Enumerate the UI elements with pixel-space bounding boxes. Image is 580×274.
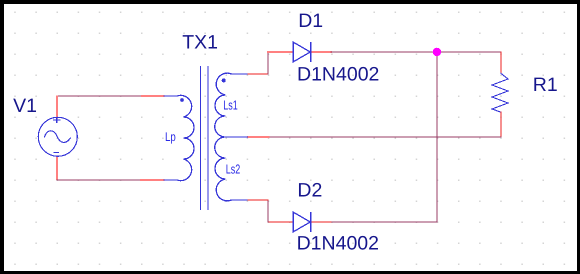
V1 sine bbox=[44, 131, 70, 143]
pin Ls2 bottom (red) bbox=[248, 199, 269, 201]
phase dot Lp bbox=[180, 98, 184, 102]
core line right bbox=[207, 66, 209, 210]
pin D1 anode (salmon) bbox=[268, 51, 293, 53]
svg-text:V1: V1 bbox=[13, 95, 37, 117]
wire top rail: D1 to R1 corner through junction bbox=[331, 51, 501, 53]
winding Ls2 bbox=[215, 137, 248, 201]
pin V1 - (salmon, vertical) bbox=[56, 157, 58, 180]
wire D2 output to junction riser bbox=[331, 221, 437, 223]
pin R1 top (red) bbox=[500, 52, 502, 73]
svg-text:Ls1: Ls1 bbox=[223, 97, 238, 112]
diode D2 bbox=[293, 212, 310, 232]
pin R1 bottom (red) bbox=[500, 112, 502, 137]
wire primary bottom: V1 bottom corner to TX1 Lp bottom pin bbox=[57, 179, 141, 181]
svg-text:D2: D2 bbox=[297, 180, 322, 202]
pin Lp top (salmon) bbox=[142, 95, 164, 97]
wire bottom rail: R1 bottom to center tap bbox=[269, 136, 502, 138]
resistor R1 bbox=[492, 73, 508, 112]
pin Lp bottom (salmon) bbox=[141, 179, 164, 181]
winding Lp bbox=[164, 95, 195, 180]
transformer TX1 bbox=[164, 66, 249, 210]
svg-text:D1N4002: D1N4002 bbox=[297, 64, 379, 86]
pin D2 anode (red) bbox=[268, 221, 293, 223]
svg-text:D1: D1 bbox=[298, 10, 323, 32]
phase dot Ls1 bbox=[222, 78, 226, 82]
svg-text:D1N4002: D1N4002 bbox=[297, 232, 379, 254]
voltage source V1 bbox=[38, 117, 77, 157]
svg-text:R1: R1 bbox=[533, 74, 558, 96]
pin center tap (salmon) bbox=[248, 136, 269, 138]
wire primary top: V1 top corner to TX1 Lp top pin bbox=[57, 95, 142, 97]
pin Ls1 top (red) bbox=[248, 73, 269, 75]
svg-text:Lp: Lp bbox=[165, 130, 176, 144]
pin D2 cathode (red) bbox=[311, 221, 331, 223]
junction node dot bbox=[433, 48, 441, 56]
pin D1 cathode (salmon) bbox=[311, 51, 331, 53]
svg-text:TX1: TX1 bbox=[182, 32, 218, 54]
svg-text:Ls2: Ls2 bbox=[226, 162, 241, 177]
core line left bbox=[200, 66, 202, 210]
V1 minus mark bbox=[54, 151, 60, 153]
V1 plus mark bbox=[53, 117, 60, 123]
diode D1 bbox=[293, 42, 310, 62]
wire Ls1 to D1 (vertical riser at x=268) bbox=[267, 52, 269, 74]
wire Ls2 to D2 (vertical riser at x=268) bbox=[267, 200, 269, 222]
winding Ls1 bbox=[215, 73, 248, 137]
pin V1 + (salmon, vertical) bbox=[56, 97, 58, 118]
wire junction drop: node to D2 cathode rail bbox=[436, 52, 438, 222]
